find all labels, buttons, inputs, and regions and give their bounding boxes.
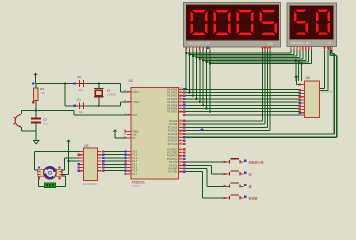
wire segment bus branch 3 to DS2 (196, 57, 300, 59)
svg-text:P3.6/WR: P3.6/WR (168, 169, 178, 171)
svg-text:P3.4/T0: P3.4/T0 (169, 162, 178, 164)
label button K2 (249, 171, 252, 176)
junction (209, 62, 211, 64)
junction (199, 58, 201, 60)
wire XTAL1 net jog (121, 84, 127, 92)
pushbutton K4 (224, 195, 247, 200)
svg-text:暂停键: 暂停键 (249, 195, 258, 200)
wire segment bus branch 7 to DS2 (210, 63, 312, 65)
junction (185, 88, 187, 90)
value 10u (43, 122, 48, 126)
junction (185, 52, 187, 54)
wire U3 output 2 to MCU P1.1 (103, 154, 127, 156)
value 12MHZ (107, 93, 116, 97)
pushbutton K3 (224, 183, 247, 188)
wire U2 common pin to power (296, 79, 300, 85)
crystal X1 (94, 89, 104, 97)
svg-text:P3.3/INT1: P3.3/INT1 (167, 159, 178, 161)
svg-text:U2: U2 (306, 76, 310, 80)
value 30pF (79, 110, 84, 114)
svg-text:P1.5: P1.5 (132, 168, 137, 170)
svg-text:P0.0/AD0: P0.0/AD0 (167, 88, 178, 91)
svg-text:P1.6: P1.6 (132, 171, 137, 173)
svg-text:30p: 30p (79, 88, 84, 92)
svg-text:P0.1/AD1: P0.1/AD1 (167, 92, 178, 95)
display DS2 pins (291, 46, 332, 50)
label button K1 (249, 159, 264, 164)
junction (202, 59, 204, 61)
junction (295, 59, 297, 61)
pin state indicators U2 (298, 83, 300, 114)
svg-text:初始值60秒: 初始值60秒 (249, 159, 264, 164)
wire P2.3 to DS1 digit common (183, 50, 270, 131)
svg-text:P3.1/TXD: P3.1/TXD (167, 153, 177, 155)
junction (67, 160, 69, 162)
svg-text:P1.7: P1.7 (132, 174, 137, 176)
wire P2.4 loop to DS2 digit common (183, 50, 335, 134)
junction (98, 82, 100, 84)
wire display DS1 segment pin 3 drop (195, 50, 197, 99)
svg-text:AT89C51: AT89C51 (132, 181, 145, 185)
wire P0.6 to driver U2 (183, 108, 301, 110)
svg-text:C1: C1 (77, 97, 81, 101)
svg-text:10k: 10k (40, 91, 45, 95)
capacitor C1 (73, 103, 86, 110)
svg-text:P3.0/RXD: P3.0/RXD (167, 149, 178, 151)
wire C3 to ground rail (35, 122, 37, 130)
svg-text:P3.7/RD: P3.7/RD (169, 172, 178, 174)
wire XTAL2 net bottom rail (65, 102, 127, 106)
wire EA pin to power (115, 133, 127, 138)
svg-text:P0.6/AD6: P0.6/AD6 (167, 108, 178, 111)
svg-text:P0.5/AD5: P0.5/AD5 (167, 104, 178, 107)
svg-text:P1.0: P1.0 (132, 152, 137, 154)
svg-text:ULN2003A: ULN2003A (83, 182, 97, 186)
wire DS2 pin to U2 output 1 (320, 50, 325, 89)
svg-text:P1.2: P1.2 (132, 158, 137, 160)
svg-text:P2.7/A15: P2.7/A15 (168, 143, 178, 146)
display DS1 four digit seven segment (184, 3, 281, 48)
junction (192, 95, 194, 97)
label R1 (40, 87, 44, 91)
junction (189, 53, 191, 55)
driver U3 ULN2003A (80, 148, 102, 181)
pushbutton RESET (13, 114, 21, 128)
wire P0.3 to driver U2 (183, 98, 301, 100)
value 10k (40, 91, 45, 95)
wire display DS1 segment pin 4 drop (199, 50, 201, 102)
svg-text:P2.3/A11: P2.3/A11 (168, 130, 178, 133)
wire U3 input row stub (65, 157, 69, 159)
svg-text:30p: 30p (79, 110, 84, 114)
wire U3 output 3 to MCU P1.2 (103, 157, 127, 159)
svg-text:XTAL1: XTAL1 (132, 91, 140, 94)
wire P3.4 to button K1 (183, 161, 226, 163)
svg-text:+23x: +23x (267, 41, 273, 45)
junction (206, 61, 208, 63)
wire motor coil 3 to U3 (62, 144, 79, 175)
wire P3.7 to button K4 (183, 172, 226, 199)
junction (64, 82, 66, 84)
svg-text:12MHZ: 12MHZ (107, 93, 116, 97)
node marker (201, 128, 204, 131)
wire segment bus branch 1 to DS2 (190, 54, 294, 56)
junction (298, 61, 300, 63)
svg-text:P3.5/T1: P3.5/T1 (169, 165, 178, 167)
wire motor coil 2 to U3 (62, 158, 79, 170)
pushbutton K1 (224, 159, 247, 164)
wire segment bus feed 1 to U2 (298, 62, 300, 81)
svg-text:ABCDEFG DP: ABCDEFG DP (291, 42, 310, 45)
power symbol VCC (U2) (295, 76, 299, 80)
wire P0.1 to driver U2 (183, 92, 301, 94)
label C1 (77, 97, 81, 101)
wire P2.0 to DS1 digit common (183, 50, 263, 121)
svg-text:10u: 10u (43, 122, 48, 126)
wire VCC to R1 top and crystal cap rail (36, 76, 121, 84)
wire ground lead (35, 131, 37, 141)
wire reset button bottom rail (21, 127, 36, 131)
wire display DS2 segment pin 1 drop (293, 50, 295, 55)
svg-text:P1.3: P1.3 (132, 161, 137, 163)
svg-text:减: 减 (249, 184, 252, 189)
wire segment bus branch 2 to DS2 (193, 55, 297, 57)
wire display DS2 segment pin 5 drop (305, 50, 307, 61)
label X1 (107, 89, 111, 93)
svg-text:P1.4: P1.4 (132, 164, 137, 166)
svg-text:P2.0/A8: P2.0/A8 (169, 120, 178, 123)
junction (199, 101, 201, 103)
svg-text:U1: U1 (129, 79, 133, 83)
motor rpm readout (45, 183, 56, 188)
wire display DS1 segment pin 0 drop (185, 50, 187, 89)
wire crystal top lead (98, 84, 100, 89)
svg-text:P0.4/AD4: P0.4/AD4 (167, 101, 178, 104)
svg-text:P2.2/A10: P2.2/A10 (168, 126, 178, 129)
wire display DS1 segment pin 1 drop (189, 50, 191, 93)
wire segment bus feed 2 to U2 (301, 64, 303, 81)
value ULN2003A (83, 182, 97, 186)
wire display DS1 segment pin 5 drop (202, 50, 204, 105)
svg-text:P0.2/AD2: P0.2/AD2 (167, 95, 178, 98)
wire motor common loop (38, 176, 65, 186)
capacitor C3 electrolytic (31, 119, 41, 123)
svg-text:RST: RST (132, 115, 137, 117)
wire ground return to driver U2 (184, 114, 301, 116)
svg-text:P0.3/AD3: P0.3/AD3 (167, 98, 178, 101)
junction (301, 62, 303, 64)
junction (209, 111, 211, 113)
label U3 (84, 144, 88, 148)
wire P0.5 to driver U2 (183, 104, 301, 106)
label button K3 (249, 184, 252, 189)
svg-text:ULN2003A: ULN2003A (321, 90, 335, 94)
wire P2.1 to DS1 digit common (183, 50, 265, 124)
svg-text:<TEXT>: <TEXT> (132, 184, 142, 188)
power symbol VCC (EA) (113, 130, 117, 134)
junction (189, 91, 191, 93)
svg-text:PSEN: PSEN (132, 131, 139, 133)
wire display DS2 segment pin 7 drop (311, 50, 313, 64)
wire P0.2 to driver U2 (183, 95, 301, 97)
MCU U1 AT89C51 (124, 88, 183, 179)
pin state indicators motor (38, 166, 61, 179)
svg-text:P3.2/INT0: P3.2/INT0 (167, 156, 178, 158)
text placeholder (132, 184, 142, 188)
wire U3 output 5 to MCU P1.4 (103, 163, 127, 165)
label U1 (129, 79, 133, 83)
value AT89C51 (132, 181, 145, 185)
label U2 (306, 76, 310, 80)
display DS1 pins (186, 46, 271, 50)
junction (35, 109, 37, 111)
svg-text:XTAL2: XTAL2 (132, 101, 140, 104)
wire P0.4 to driver U2 (183, 101, 301, 103)
svg-text:P1.1: P1.1 (132, 155, 137, 157)
wire RST node down to C3 (35, 110, 37, 118)
wire P3.5 to button K2 (183, 165, 226, 174)
wire U3 output 7 to MCU P1.6 (103, 170, 127, 172)
pin state indicators MCU (124, 88, 185, 175)
junction (202, 104, 204, 106)
junction (195, 98, 197, 100)
driver U2 ULN2003A (300, 81, 319, 118)
wire reset button top rail (21, 110, 36, 114)
wire motor coil 1 to U3 (35, 152, 80, 170)
label C3 (43, 118, 47, 122)
wire DS2 pin to U2 output 2 (320, 50, 329, 91)
wire cap ground rail vertical (64, 84, 66, 106)
svg-text:P2.5/A13: P2.5/A13 (168, 136, 178, 139)
wire P0.0 to driver U2 (183, 88, 301, 90)
stepper motor M1 (38, 167, 62, 179)
wire segment bus branch 6 to DS2 (207, 61, 309, 63)
svg-text:ALE: ALE (132, 134, 137, 137)
wire U3 output 1 to MCU P1.0 (103, 151, 127, 153)
svg-text:P2.4/A12: P2.4/A12 (168, 133, 178, 136)
pin state indicators U3 (77, 150, 104, 172)
wire segment bus branch 4 to DS2 (200, 58, 303, 60)
svg-text:P2.6/A14: P2.6/A14 (168, 140, 178, 143)
junction (98, 105, 100, 107)
svg-text:P2.1/A9: P2.1/A9 (169, 123, 178, 126)
wire segment bus branch 5 to DS2 (203, 60, 306, 62)
junction (192, 55, 194, 57)
value ULN2003A (321, 90, 335, 94)
wire display DS1 segment pin 2 drop (192, 50, 194, 96)
wire U3 output 6 to MCU P1.5 (103, 167, 127, 169)
wire display DS2 segment pin 6 drop (308, 50, 310, 62)
svg-text:C2: C2 (77, 75, 81, 79)
wire segment bus feed 0 to U2 (295, 61, 297, 81)
svg-text:P0.7/AD7: P0.7/AD7 (167, 111, 178, 114)
svg-text:加: 加 (249, 171, 252, 176)
wire U3 output 4 to MCU P1.3 (103, 160, 127, 162)
wire display DS2 segment pin 0 drop (290, 50, 292, 53)
wire segment bus branch 0 to DS2 (186, 52, 291, 54)
wire display DS2 segment pin 3 drop (299, 50, 301, 58)
svg-text:U3: U3 (84, 144, 88, 148)
wire RST node to MCU RST pin (36, 110, 127, 114)
svg-text:ABCDEFG DP: ABCDEFG DP (188, 41, 210, 45)
junction (195, 56, 197, 58)
label button K4 (249, 195, 258, 200)
wire display DS1 segment pin 7 drop (209, 50, 211, 112)
capacitor C2 (73, 80, 86, 87)
display DS2 two digit seven segment (287, 3, 337, 47)
wire display DS1 segment pin 6 drop (206, 50, 208, 109)
wire R1 bottom to RST node (35, 101, 37, 111)
junction (206, 107, 208, 109)
value 30pF (79, 88, 84, 92)
ground symbol (33, 141, 40, 144)
wire crystal bottom lead (98, 97, 100, 106)
wire P2.5 loop to DS2 digit common (183, 50, 337, 137)
power symbol VCC (reset) (34, 73, 38, 77)
label C2 (77, 75, 81, 79)
wire display DS2 segment pin 2 drop (296, 50, 298, 56)
pushbutton K2 (224, 171, 247, 176)
wire P0.7 to driver U2 (183, 111, 301, 113)
power symbol VCC (motor common) (67, 140, 71, 144)
wire P3.6 to button K3 (183, 169, 226, 187)
wire P2.2 to DS1 digit common (183, 50, 268, 127)
wire display DS2 segment pin 4 drop (302, 50, 304, 59)
resistor R1 (32, 82, 38, 103)
svg-text:EA: EA (132, 137, 136, 140)
